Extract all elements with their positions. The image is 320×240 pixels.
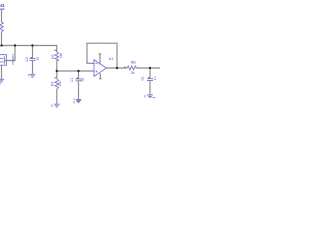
- pin tick RB left: [124, 66, 126, 68]
- svg-text:2k: 2k: [131, 71, 135, 75]
- ground G3: [54, 104, 60, 107]
- resistor RB: [127, 66, 136, 70]
- wire R2 bottom to node: [56, 61, 58, 79]
- svg-text:C1: C1: [70, 77, 74, 81]
- junction dot C3 tap: [77, 70, 79, 72]
- op-amp U1 triangle: [94, 60, 106, 77]
- wire C3 branch down: [78, 71, 80, 78]
- junction dot bus left: [0, 44, 2, 46]
- label dash right of G5: [153, 96, 156, 99]
- resistor R1: [0, 22, 3, 32]
- wire opamp V- pin: [99, 73, 101, 78]
- wire from IN3 terminal down to R1: [1, 10, 3, 23]
- op-amp minus mark: [95, 62, 97, 64]
- wire output branch down to C4: [149, 68, 151, 78]
- svg-text:1u: 1u: [36, 57, 40, 61]
- svg-text:CL: CL: [140, 76, 144, 80]
- svg-text:10k: 10k: [58, 81, 62, 87]
- ground G5: [147, 95, 153, 98]
- wire opamp V+ pin: [99, 54, 101, 64]
- ground arrow G4: [76, 100, 81, 103]
- svg-text:5p: 5p: [81, 78, 85, 82]
- svg-text:16k: 16k: [59, 52, 63, 58]
- svg-text:R3: R3: [50, 82, 54, 86]
- junction dot output-C4: [149, 67, 151, 69]
- wire branch down at x=15: [5, 46, 15, 61]
- svg-text:0: 0: [73, 101, 75, 105]
- svg-text:0: 0: [28, 74, 30, 78]
- capacitor C4 plates: [147, 78, 153, 80]
- capacitor C3 plates: [76, 78, 82, 80]
- pin tick opamp minus input: [93, 62, 94, 64]
- ground G1: [0, 79, 4, 82]
- wire R3 bottom to ground: [56, 89, 58, 104]
- wire C2 bottom to ground: [32, 61, 34, 74]
- pin tick R2 top: [54, 49, 56, 51]
- wire RB right to edge: [136, 67, 160, 69]
- wire branch down at x=32.5 to C2: [32, 46, 34, 58]
- pin tick opamp V+: [99, 53, 102, 55]
- pin tick C4 top: [148, 77, 150, 79]
- wire R1 bottom to bus: [1, 32, 3, 46]
- terminal bar IN3: [0, 9, 5, 10]
- pin tick R3 top: [54, 77, 56, 79]
- junction dot feedback-output: [116, 67, 118, 69]
- svg-text:0: 0: [51, 104, 53, 108]
- wire feedback loop: [87, 43, 117, 68]
- transistor Q1 body: [0, 55, 6, 66]
- pin tick C3 top: [77, 77, 79, 79]
- grid dots: [4, 7, 158, 105]
- wire C4 bottom to ground: [149, 81, 151, 95]
- junction dot bus x32.5: [31, 44, 33, 46]
- wire bus horizontal: [1, 45, 57, 47]
- pin tick opamp V-: [99, 78, 101, 80]
- wire node to opamp plus input: [57, 70, 94, 72]
- resistor R2: [55, 52, 59, 61]
- wire bus corner down to R2: [56, 45, 58, 52]
- svg-text:RB: RB: [131, 60, 137, 64]
- wire opamp output: [106, 67, 127, 69]
- svg-text:U1: U1: [109, 57, 114, 61]
- pin tick C2 top: [31, 57, 33, 59]
- resistor R3: [55, 79, 59, 89]
- svg-text:2N3904: 2N3904: [11, 54, 15, 65]
- junction dot divider node: [56, 70, 58, 72]
- junction dot bus x15: [14, 44, 16, 46]
- svg-text:R2: R2: [51, 54, 55, 58]
- wire C3 bottom to arrow ground: [78, 81, 80, 99]
- op-amp plus mark: [95, 71, 97, 73]
- capacitor C2 plates: [30, 58, 36, 60]
- ground G2: [30, 74, 36, 77]
- wire Q1 emitter to ground: [1, 65, 3, 79]
- svg-text:1n: 1n: [153, 76, 157, 80]
- svg-text:N3: N3: [0, 3, 5, 8]
- svg-text:0: 0: [144, 95, 146, 99]
- svg-text:C2: C2: [25, 57, 29, 61]
